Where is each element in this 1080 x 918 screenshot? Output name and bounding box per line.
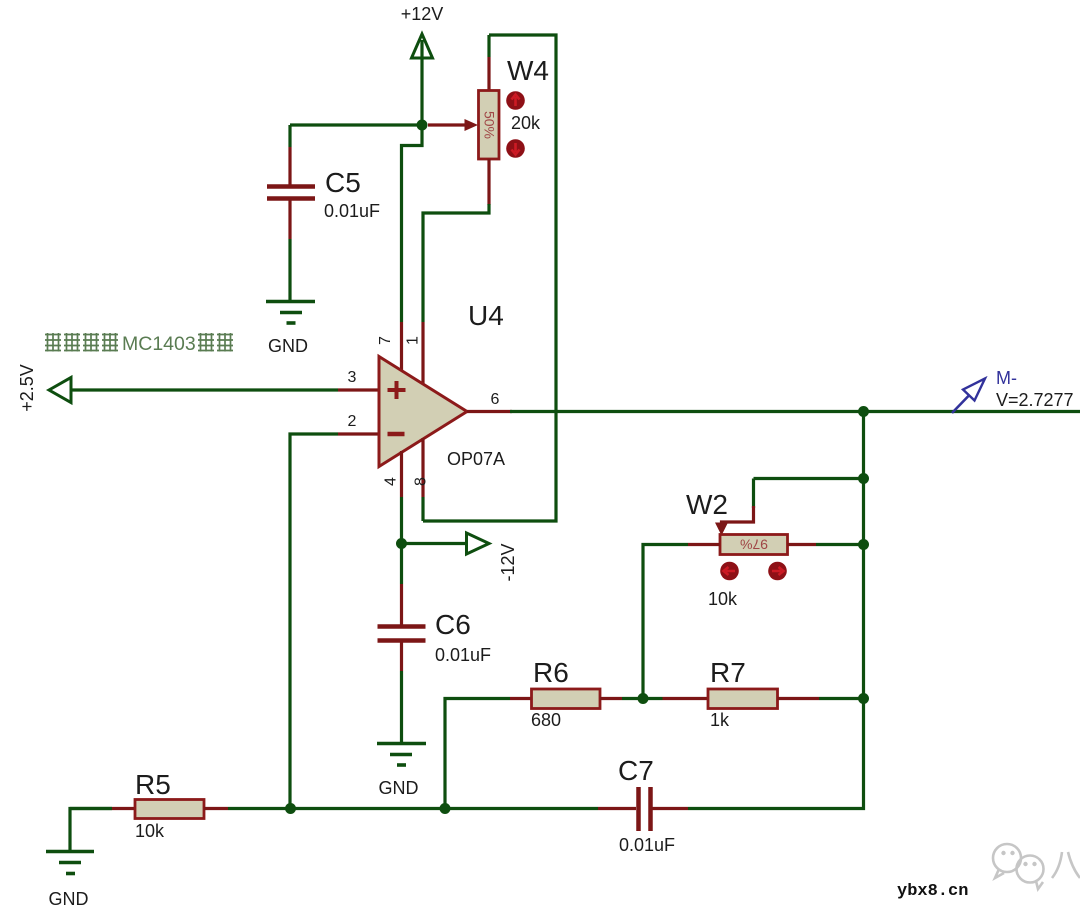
svg-text:0.01uF: 0.01uF [619,835,675,855]
terminal +2.5V arrow [49,378,71,403]
potentiometer W2 left lead [643,545,720,699]
potentiometer W2 body [720,535,788,555]
resistor R5 right lead [204,807,228,810]
svg-text:10k: 10k [708,589,738,609]
wire to -12V arrow [402,542,468,545]
wire pin 8 to feedback loop [421,497,424,521]
svg-text:2: 2 [348,413,357,430]
power +12V arrow symbol [412,34,433,125]
wire +2.5V to op-amp pin 3 [71,388,338,391]
op-amp U4 pin 6 output stub [467,410,512,413]
potentiometer W4 body [479,91,500,160]
W2 right adjust button [768,562,787,581]
resistor R7 left lead [643,697,663,700]
svg-text:OP07A: OP07A [447,449,505,469]
net label: Chinese annotation 精密电源MC1403输出 [45,333,118,352]
W4 up adjust button [506,91,525,110]
op-amp plus input marking [388,381,406,399]
svg-text:GND: GND [49,889,89,909]
op-amp U4 pin 7 stub (top) [400,322,403,373]
svg-text:4: 4 [383,477,400,486]
svg-text:C6: C6 [435,609,471,640]
op-amp U4 pin 1 stub (top) [421,322,424,386]
capacitor C7 left lead [598,807,636,810]
wire R5 to ground [70,809,112,852]
resistor R7 right lead [778,697,864,700]
svg-text:R7: R7 [710,657,746,688]
svg-text:+2.5V: +2.5V [17,364,37,412]
capacitor C7 right lead [652,807,688,810]
svg-text:3: 3 [348,369,357,386]
svg-text:V=2.7277: V=2.7277 [996,390,1074,410]
svg-text:+12V: +12V [401,4,444,24]
node junction at +12V / W4 wiper [417,120,428,131]
capacitor C6 bottom lead [400,642,403,743]
ground symbol below C6 [377,744,426,766]
svg-text:ybx8.cn: ybx8.cn [897,882,968,901]
resistor R6 right lead [600,697,643,700]
svg-text:W2: W2 [686,489,728,520]
svg-text:0.01uF: 0.01uF [435,645,491,665]
node junction R6/R7/W2-left [638,693,649,704]
W4 wiper red arrow wire [428,119,478,131]
op-amp U4 pin 3 stub [338,388,379,391]
potentiometer W2 wiper arrow [715,506,754,536]
output wire to probe [510,410,1080,413]
ground symbol below C5 [266,302,315,324]
wire junction down to op-amp pin 7 [402,125,423,322]
node junction output / feedback vertical [858,406,869,417]
svg-text:1k: 1k [710,710,730,730]
node junction W2 right / output vertical [858,539,869,550]
node junction R7 right / output vertical [858,693,869,704]
op-amp U4 triangle body [379,357,467,467]
svg-text:GND: GND [379,778,419,798]
svg-text:0.01uF: 0.01uF [324,201,380,221]
op-amp U4 pin 4 stub (bottom) [400,451,403,497]
svg-text:10k: 10k [135,821,165,841]
capacitor C6 top lead [400,544,403,626]
wiper link wire W2 to output node [754,479,864,509]
power -12V arrow symbol [467,533,490,554]
capacitor C7 plates [639,787,651,831]
wire op-amp pin 2 to bottom rail [290,434,338,809]
resistor R5 body [135,800,204,819]
svg-text:M-: M- [996,368,1017,388]
svg-text:7: 7 [377,336,394,345]
svg-text:W4: W4 [507,55,549,86]
op-amp minus input marking [388,432,405,437]
U4 feedback loop wire (pot to pins 1/8) [423,35,556,521]
wire from +12V rail to C5 top [290,123,422,126]
node junction wiper/output vertical [858,473,869,484]
potentiometer W4 top lead [487,35,490,91]
svg-text:6: 6 [491,391,500,408]
ground symbol below R5 [46,852,94,874]
node junction rail / pin2 wire [285,803,296,814]
capacitor C5 plates [267,187,315,199]
op-amp U4 pin 2 stub [338,432,379,435]
svg-text:680: 680 [531,710,561,730]
W2 left adjust button [720,562,739,581]
svg-text:97%: 97% [740,537,768,553]
potentiometer W2 right lead [788,543,864,546]
svg-text:MC1403: MC1403 [122,333,196,355]
svg-text:20k: 20k [511,113,541,133]
svg-text:1: 1 [405,336,422,345]
svg-text:C5: C5 [325,167,361,198]
capacitor C5 bottom lead [288,200,291,301]
bottom rail wire (middle section) [228,807,598,810]
svg-text:R5: R5 [135,769,171,800]
voltage probe M- [952,379,985,414]
resistor R6 left lead [445,699,532,809]
potentiometer W4 bottom lead [423,159,489,322]
svg-text:C7: C7 [618,755,654,786]
op-amp U4 pin 8 stub (bottom) [421,438,424,497]
feedback vertical wire down to bottom rail [688,412,864,809]
node junction pin4 / -12V / C6 [396,538,407,549]
watermark logo (chat bubbles + character) [993,844,1080,889]
resistor R7 body [708,689,778,709]
svg-text:50%: 50% [482,111,498,139]
svg-text:8: 8 [413,477,430,486]
node junction rail / R6 left [440,803,451,814]
resistor R6 body [532,689,601,709]
resistor R5 left lead [112,807,135,810]
W4 down adjust button [506,139,525,158]
svg-text:U4: U4 [468,300,504,331]
svg-text:R6: R6 [533,657,569,688]
bottom rail wire (left section) [70,807,112,810]
capacitor C5 top lead [288,125,291,185]
svg-text:-12V: -12V [498,543,518,581]
wire pin 4 down to -12V node [400,497,403,544]
capacitor C6 plates [378,627,426,641]
svg-text:GND: GND [268,336,308,356]
